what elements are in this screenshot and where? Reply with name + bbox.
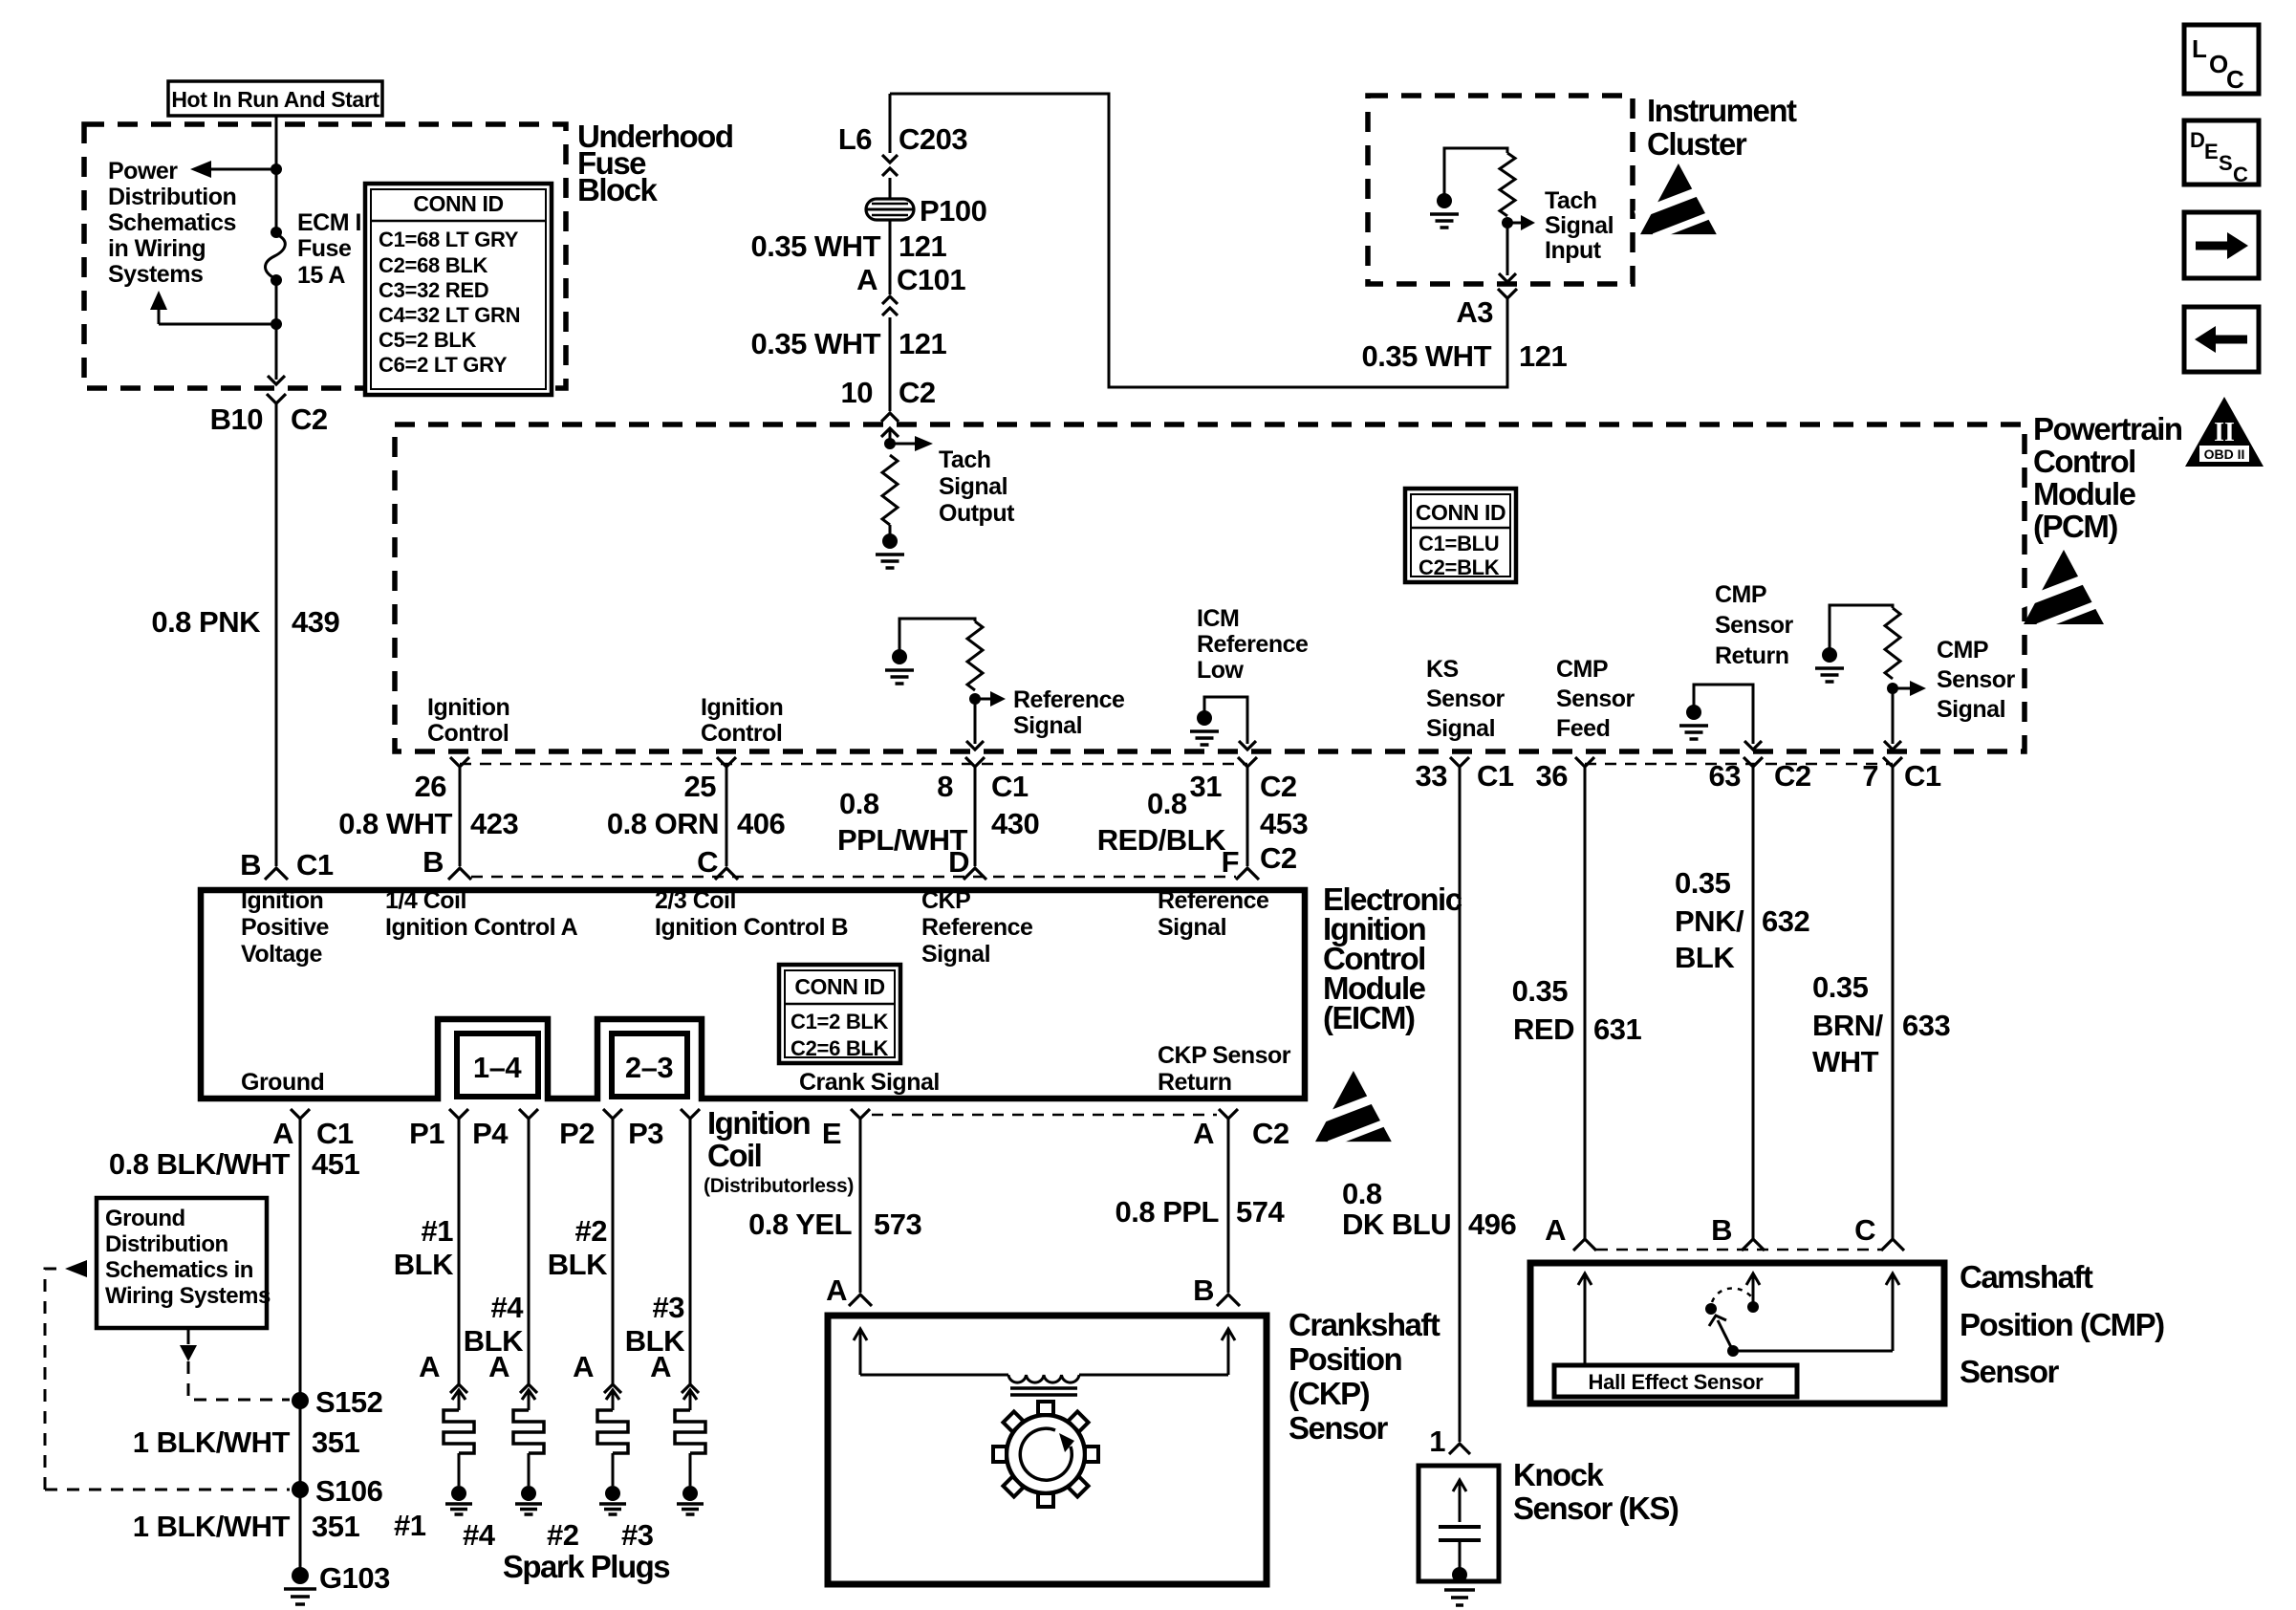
svg-text:0.8: 0.8	[1342, 1177, 1382, 1210]
node: tach output junction	[884, 438, 896, 449]
svg-text:Spark Plugs: Spark Plugs	[503, 1549, 669, 1584]
svg-text:C1: C1	[296, 848, 334, 881]
svg-text:Ignition Control A: Ignition Control A	[385, 914, 578, 941]
knock sensor element	[1459, 1482, 1462, 1522]
wire: spark plug #2 BLK from P2	[612, 1128, 615, 1386]
svg-text:7: 7	[1862, 759, 1878, 793]
svg-text:Tach: Tach	[1545, 187, 1597, 214]
svg-text:Schematics in: Schematics in	[105, 1257, 253, 1283]
switch contact dots	[1705, 1303, 1717, 1315]
svg-text:Signal: Signal	[939, 473, 1007, 500]
svg-text:Ignition: Ignition	[707, 1105, 810, 1141]
svg-text:CONN ID: CONN ID	[794, 974, 884, 999]
svg-text:25: 25	[684, 770, 717, 803]
svg-text:CKP Sensor: CKP Sensor	[1158, 1042, 1291, 1069]
ground G103	[292, 1567, 309, 1584]
svg-text:KS: KS	[1426, 656, 1459, 683]
connector fork at PCM bottom (x=760)	[717, 757, 736, 767]
ground inside instrument cluster	[1437, 193, 1452, 208]
spark plug connector A (x=553)	[520, 1384, 537, 1393]
underhood fuse block dashed box	[84, 124, 566, 388]
svg-text:RED/BLK: RED/BLK	[1097, 823, 1226, 857]
switch pivot and arm	[1727, 1345, 1739, 1357]
spark plug resistor element (x=722)	[675, 1410, 705, 1453]
svg-text:Power: Power	[108, 158, 178, 185]
svg-text:Distribution: Distribution	[108, 184, 236, 210]
svg-text:Systems: Systems	[108, 261, 203, 288]
svg-text:Sensor: Sensor	[1715, 612, 1794, 639]
connector fork at PCM bottom (x=1658)	[1575, 757, 1594, 767]
connector fork at EICM bottom (x=900)	[851, 1109, 870, 1119]
svg-text:Signal: Signal	[1158, 914, 1226, 941]
svg-text:Sensor: Sensor	[1426, 685, 1505, 712]
svg-text:0.8 WHT: 0.8 WHT	[338, 807, 452, 840]
label box: Hot In Run And Start	[168, 81, 382, 116]
svg-text:Feed: Feed	[1556, 715, 1610, 742]
svg-text:B: B	[240, 848, 261, 881]
svg-text:0.35 WHT: 0.35 WHT	[750, 327, 880, 360]
arrow: CKP coil lead A	[859, 1331, 862, 1375]
svg-text:CKP: CKP	[921, 887, 970, 914]
svg-text:L: L	[2192, 34, 2207, 63]
svg-text:Hot In Run And Start: Hot In Run And Start	[171, 87, 379, 112]
svg-text:(Distributorless): (Distributorless)	[704, 1175, 854, 1197]
ground: CMP sensor return	[1686, 705, 1701, 720]
fuse ECM I 15 A	[271, 227, 282, 238]
CMP sensor signal pull-up	[1830, 605, 1893, 648]
svg-text:#4: #4	[463, 1518, 496, 1552]
svg-text:A: A	[650, 1350, 671, 1383]
svg-text:C: C	[1854, 1213, 1875, 1247]
svg-text:D: D	[948, 845, 969, 879]
svg-text:A: A	[826, 1273, 847, 1307]
svg-text:0.35: 0.35	[1675, 866, 1731, 900]
svg-text:CONN ID: CONN ID	[1416, 500, 1505, 525]
wire 121: 0.35 WHT between C101 and PCM pin 10	[889, 317, 892, 411]
wire 453: 0.8 RED/BLK reference signal	[1246, 776, 1249, 866]
connector fork at PCM bottom (x=1305)	[1238, 757, 1257, 767]
svg-text:(PCM): (PCM)	[2033, 509, 2117, 544]
arrow into PCM bottom at pin 63	[1744, 741, 1762, 750]
svg-text:C2: C2	[291, 402, 328, 436]
resistor: CMP sensor signal	[1885, 608, 1900, 679]
wire: spark plug #1 BLK from P1	[458, 1128, 461, 1386]
spark plug connector A (x=480)	[450, 1384, 467, 1393]
svg-text:Distribution: Distribution	[105, 1231, 228, 1257]
svg-text:Ignition: Ignition	[701, 694, 783, 721]
wire 574: 0.8 PPL CKP return to CKP B	[1227, 1128, 1230, 1293]
return arrow to Power Distribution Schematics	[159, 323, 276, 326]
svg-text:0.8 ORN: 0.8 ORN	[607, 807, 719, 840]
svg-text:C: C	[697, 845, 718, 879]
node: CMP sensor signal junction	[1887, 683, 1898, 694]
connector fork at EICM bottom (x=722)	[681, 1109, 700, 1119]
svg-text:C5=2 BLK: C5=2 BLK	[379, 328, 477, 352]
legend icon: right arrow	[2184, 212, 2259, 278]
svg-text:BRN/: BRN/	[1812, 1009, 1884, 1042]
wire 496: 0.8 DK BLU KS signal	[1459, 776, 1462, 1442]
svg-text:PNK/: PNK/	[1675, 904, 1744, 938]
svg-text:Control: Control	[427, 720, 509, 747]
svg-text:406: 406	[737, 807, 785, 840]
connector at CKP pin A	[849, 1295, 872, 1306]
svg-text:A: A	[573, 1350, 594, 1383]
svg-text:A: A	[272, 1117, 293, 1150]
svg-text:Input: Input	[1545, 237, 1602, 264]
wire 451: 0.8 BLK/WHT ground from EICM pin A	[299, 1128, 302, 1576]
knock sensor KS box	[1419, 1466, 1499, 1581]
connector forks at EICM top pins	[448, 868, 471, 880]
svg-text:B: B	[1711, 1213, 1732, 1247]
harness dashed line EICM bottom right	[872, 1114, 1217, 1117]
svg-text:BLK: BLK	[1675, 941, 1735, 974]
svg-text:632: 632	[1762, 904, 1809, 938]
connector arrow at underhood fuse block exit	[268, 376, 285, 384]
svg-text:S106: S106	[315, 1474, 383, 1508]
svg-text:Ignition Control B: Ignition Control B	[655, 914, 848, 941]
svg-text:Return: Return	[1715, 642, 1789, 669]
svg-text:Sensor: Sensor	[1937, 666, 2016, 693]
CMP harness dashed line	[1596, 1249, 1881, 1251]
svg-text:Ignition: Ignition	[427, 694, 509, 721]
connector fork at PCM pin 10 C2	[881, 413, 899, 422]
connector fork at EICM bottom (x=314)	[291, 1109, 310, 1119]
svg-text:C3=32 RED: C3=32 RED	[379, 278, 488, 302]
svg-text:Tach: Tach	[939, 446, 991, 473]
svg-text:#3: #3	[653, 1291, 685, 1324]
resistor: reference signal	[967, 621, 983, 690]
spark plug connector A (x=641)	[604, 1384, 621, 1393]
svg-text:E: E	[2204, 140, 2218, 163]
svg-text:C2: C2	[899, 376, 936, 409]
EICM harness dashed line at top	[471, 876, 1236, 879]
svg-text:0.8: 0.8	[839, 787, 879, 820]
spark plug resistor element (x=641)	[597, 1410, 628, 1453]
svg-text:Crankshaft: Crankshaft	[1289, 1307, 1440, 1342]
node: junction to return arrow	[271, 318, 282, 330]
connector fork at EICM bottom (x=553)	[519, 1109, 538, 1119]
svg-text:439: 439	[292, 605, 339, 639]
svg-text:Low: Low	[1197, 657, 1245, 684]
svg-text:1: 1	[1429, 1425, 1445, 1458]
svg-text:C2: C2	[1260, 841, 1297, 875]
ESD sensitivity symbol: instrument cluster	[1635, 163, 1726, 237]
svg-text:10: 10	[841, 376, 873, 409]
svg-text:63: 63	[1709, 759, 1742, 793]
arrow at instrument cluster edge	[1499, 273, 1516, 282]
OBD II symbol	[2185, 397, 2264, 467]
svg-text:C: C	[2233, 163, 2248, 186]
connector fork at PCM bottom (x=1980)	[1883, 757, 1902, 767]
spark plug ground (x=553)	[521, 1486, 536, 1501]
svg-text:Ground: Ground	[241, 1069, 324, 1096]
ground: reference pull-up	[892, 649, 907, 664]
arrow: Tach Signal Input	[1507, 222, 1521, 225]
svg-text:Output: Output	[939, 500, 1015, 527]
svg-text:O: O	[2209, 50, 2228, 78]
svg-text:L6: L6	[838, 122, 872, 156]
svg-text:Reference: Reference	[1013, 686, 1125, 713]
svg-text:BLK: BLK	[548, 1248, 608, 1281]
svg-text:0.35 WHT: 0.35 WHT	[750, 229, 880, 263]
wire 121: tach signal vertical at PCM pin 10	[889, 94, 892, 153]
dashed reference: ground distribution box to S152	[187, 1328, 190, 1344]
svg-text:31: 31	[1190, 770, 1223, 803]
arrow: CKP coil lead B	[1227, 1331, 1230, 1375]
wire 631: 0.35 RED CMP feed	[1584, 776, 1587, 1239]
arrow into PCM top at pin 10	[881, 428, 899, 437]
svg-text:Crank Signal: Crank Signal	[799, 1069, 940, 1096]
svg-text:DK BLU: DK BLU	[1342, 1207, 1451, 1241]
connector at CKP pin B	[1217, 1295, 1240, 1306]
ICM reference low ground loop	[1204, 697, 1247, 744]
svg-text:2–3: 2–3	[625, 1051, 673, 1084]
camshaft position CMP sensor box	[1530, 1263, 1944, 1403]
legend icon DESC	[2184, 120, 2259, 185]
svg-text:Fuse: Fuse	[297, 235, 352, 262]
connector fork at PCM bottom (x=1527)	[1450, 757, 1469, 767]
spark plug ground (x=641)	[605, 1486, 620, 1501]
svg-text:C1=BLU: C1=BLU	[1419, 532, 1499, 555]
splice S152	[292, 1392, 309, 1409]
svg-text:Block: Block	[577, 172, 659, 207]
svg-text:E: E	[822, 1117, 841, 1150]
svg-text:B10: B10	[210, 402, 263, 436]
svg-text:C1=2 BLK: C1=2 BLK	[791, 1010, 889, 1033]
svg-text:P2: P2	[559, 1117, 595, 1150]
ESD sensitivity symbol: PCM	[2019, 550, 2114, 627]
svg-text:Voltage: Voltage	[241, 941, 323, 968]
svg-text:Sensor: Sensor	[1556, 685, 1635, 712]
svg-text:G103: G103	[319, 1561, 390, 1595]
svg-text:15 A: 15 A	[297, 262, 345, 289]
svg-text:OBD II: OBD II	[2204, 446, 2245, 462]
svg-text:Reference: Reference	[921, 914, 1033, 941]
arrow: CMP Sensor Signal	[1893, 687, 1910, 690]
dashed reference at S106	[45, 1489, 290, 1491]
switch travel dashed arc	[1712, 1288, 1751, 1302]
wire: CMP signal to pin 7	[1892, 688, 1895, 744]
wire 423: 0.8 WHT ignition control A	[459, 776, 462, 866]
wire 632: 0.35 PNK/BLK CMP return	[1752, 776, 1755, 1239]
svg-text:#1: #1	[394, 1509, 426, 1542]
wire: reference signal to pin 8	[974, 699, 977, 744]
connector fork at PCM bottom (x=1020)	[965, 757, 985, 767]
svg-text:Signal: Signal	[1013, 712, 1082, 739]
CKP reluctor gear	[993, 1402, 1098, 1507]
svg-text:Position: Position	[1289, 1341, 1402, 1377]
svg-text:Ground: Ground	[105, 1206, 185, 1231]
svg-text:(EICM): (EICM)	[1323, 1000, 1415, 1035]
ground: tach output	[882, 533, 898, 549]
connector fork at PCM bottom (x=1834)	[1744, 757, 1763, 767]
svg-text:in Wiring: in Wiring	[108, 235, 206, 262]
svg-text:ICM: ICM	[1197, 605, 1239, 632]
reference signal pull-up network	[899, 619, 975, 650]
svg-text:574: 574	[1236, 1195, 1285, 1229]
resistor: tach signal output	[882, 455, 898, 525]
connector forks at CMP pins A B C	[1573, 1239, 1596, 1251]
svg-text:121: 121	[1519, 339, 1567, 373]
svg-text:0.8 YEL: 0.8 YEL	[748, 1207, 852, 1241]
svg-text:#4: #4	[491, 1291, 525, 1324]
svg-text:C1: C1	[1904, 759, 1941, 793]
ESD sensitivity symbol: EICM	[1310, 1071, 1401, 1144]
spark plug resistor element (x=553)	[513, 1410, 544, 1453]
wire: battery feed from Hot In Run And Start	[275, 116, 278, 231]
CONN ID table: underhood fuse block	[365, 184, 552, 395]
svg-text:573: 573	[874, 1207, 921, 1241]
connector fork at EICM bottom (x=480)	[449, 1109, 468, 1119]
powertrain control module PCM dashed box	[395, 424, 2025, 751]
wire 573: 0.8 YEL crank signal E to CKP A	[859, 1128, 862, 1293]
CMP sensor return ground loop	[1694, 685, 1753, 744]
svg-text:430: 430	[991, 807, 1039, 840]
svg-text:A: A	[1545, 1213, 1566, 1247]
svg-text:Position (CMP): Position (CMP)	[1960, 1307, 2164, 1342]
svg-text:C2: C2	[1774, 759, 1811, 793]
svg-text:A: A	[856, 263, 877, 296]
svg-text:ECM I: ECM I	[297, 209, 361, 236]
svg-text:0.8 PPL: 0.8 PPL	[1116, 1195, 1220, 1229]
svg-text:C1: C1	[991, 770, 1029, 803]
CONN ID table: EICM	[779, 965, 900, 1063]
wire 439: 0.8 PNK from B10 to EICM	[275, 413, 278, 866]
svg-text:451: 451	[312, 1147, 359, 1181]
connector C101 pin A	[882, 296, 898, 304]
svg-text:0.35 WHT: 0.35 WHT	[1361, 339, 1491, 373]
svg-text:#1: #1	[422, 1214, 454, 1248]
svg-text:0.8 PNK: 0.8 PNK	[151, 605, 261, 639]
svg-text:Return: Return	[1158, 1069, 1232, 1096]
svg-text:A: A	[488, 1350, 509, 1383]
connector C203	[882, 155, 898, 163]
CKP pickup coil	[860, 1374, 1008, 1377]
spark plug resistor element (x=480)	[444, 1410, 474, 1453]
svg-text:#2: #2	[547, 1518, 578, 1552]
wire: spark plug #3 BLK from P3	[689, 1128, 692, 1386]
arrow into PCM bottom at pin 31	[1239, 741, 1256, 750]
svg-text:Wiring Systems: Wiring Systems	[105, 1283, 271, 1309]
wire 430: 0.8 PPL/WHT CKP reference	[974, 776, 977, 866]
svg-text:A: A	[419, 1350, 440, 1383]
wire to tach input resistor	[1444, 148, 1507, 194]
coil pack 2-3 box	[612, 1033, 687, 1097]
svg-text:P1: P1	[409, 1117, 444, 1150]
connector fork at EICM bottom (x=641)	[603, 1109, 622, 1119]
arrow: CMP pin B switched	[1752, 1273, 1755, 1307]
wire: pivot to CMP pin C	[1733, 1350, 1893, 1353]
svg-text:Camshaft: Camshaft	[1960, 1259, 2093, 1295]
legend icon: left arrow	[2184, 307, 2259, 372]
node: reference signal junction	[969, 693, 981, 705]
svg-text:Reference: Reference	[1197, 631, 1309, 658]
svg-text:CONN ID: CONN ID	[413, 191, 503, 216]
svg-text:A3: A3	[1456, 295, 1493, 329]
svg-text:2/3 Coil: 2/3 Coil	[655, 887, 736, 914]
svg-text:1 BLK/WHT: 1 BLK/WHT	[133, 1510, 291, 1543]
svg-text:RED: RED	[1513, 1012, 1574, 1046]
harness dashed line below PCM pins (right group)	[1585, 763, 1893, 766]
connector fork at EICM bottom (x=1285)	[1219, 1109, 1238, 1119]
arrow: CMP pin A from hall sensor	[1584, 1273, 1587, 1365]
svg-text:Positive: Positive	[241, 914, 329, 941]
svg-text:C101: C101	[897, 263, 965, 296]
svg-text:S: S	[2219, 151, 2232, 175]
connector fork at PCM bottom (x=481)	[450, 757, 469, 767]
svg-text:Ignition: Ignition	[241, 887, 323, 914]
svg-text:#2: #2	[575, 1214, 607, 1248]
arrow: Reference Signal	[975, 698, 990, 701]
svg-text:D: D	[2190, 128, 2205, 152]
svg-text:0.8 BLK/WHT: 0.8 BLK/WHT	[109, 1147, 291, 1181]
svg-text:CMP: CMP	[1715, 581, 1766, 608]
instrument cluster dashed box	[1368, 96, 1633, 284]
svg-text:CMP: CMP	[1556, 656, 1608, 683]
svg-text:#3: #3	[621, 1518, 654, 1552]
svg-text:C2=6 BLK: C2=6 BLK	[791, 1036, 889, 1060]
svg-text:Sensor (KS): Sensor (KS)	[1513, 1490, 1679, 1526]
svg-text:1–4: 1–4	[473, 1051, 522, 1084]
svg-text:Sensor: Sensor	[1960, 1354, 2060, 1389]
svg-text:C6=2 LT GRY: C6=2 LT GRY	[379, 353, 508, 377]
svg-text:(CKP): (CKP)	[1289, 1376, 1370, 1411]
svg-text:351: 351	[312, 1425, 359, 1459]
wire 406: 0.8 ORN ignition control B	[726, 776, 728, 866]
svg-text:C203: C203	[899, 122, 967, 156]
arrow: Tach Signal Output	[890, 443, 915, 446]
svg-text:Signal: Signal	[921, 941, 990, 968]
svg-text:BLK: BLK	[394, 1248, 454, 1281]
legend icon LOC	[2184, 25, 2259, 94]
wire 121: 0.35 WHT between P100 and C101	[889, 220, 892, 294]
note box: Ground Distribution Schematics in Wiring Systems	[97, 1198, 267, 1328]
svg-text:0.35: 0.35	[1512, 974, 1569, 1008]
spark plug ground (x=722)	[682, 1486, 698, 1501]
svg-text:453: 453	[1260, 807, 1308, 840]
svg-text:C2=68 BLK: C2=68 BLK	[379, 253, 487, 277]
svg-text:1 BLK/WHT: 1 BLK/WHT	[133, 1425, 291, 1459]
svg-text:Instrument: Instrument	[1647, 93, 1797, 128]
svg-text:A: A	[1193, 1117, 1214, 1150]
svg-text:Control: Control	[701, 720, 782, 747]
connector B10 C2 fork	[267, 394, 286, 403]
svg-text:Signal: Signal	[1426, 715, 1495, 742]
wire 633: 0.35 BRN/WHT CMP signal	[1892, 776, 1895, 1239]
svg-text:C2=BLK: C2=BLK	[1419, 555, 1500, 579]
svg-text:0.8: 0.8	[1147, 787, 1187, 820]
crankshaft position CKP sensor box	[828, 1316, 1267, 1584]
svg-text:C4=32 LT GRN: C4=32 LT GRN	[379, 303, 520, 327]
svg-text:C1: C1	[316, 1117, 354, 1150]
wire: fuse output	[275, 280, 278, 380]
svg-text:P4: P4	[472, 1117, 509, 1150]
svg-text:C2: C2	[1252, 1117, 1289, 1150]
spark plug ground (x=480)	[451, 1486, 466, 1501]
svg-text:Cluster: Cluster	[1647, 126, 1747, 162]
svg-text:P3: P3	[628, 1117, 663, 1150]
svg-text:Module: Module	[2033, 476, 2136, 511]
svg-text:Reference: Reference	[1158, 887, 1269, 914]
ground: knock sensor case	[1452, 1567, 1467, 1582]
node: tach signal input junction	[1502, 217, 1513, 228]
svg-text:423: 423	[470, 807, 518, 840]
svg-text:WHT: WHT	[1812, 1045, 1879, 1078]
harness dashed line below PCM pins (left group)	[460, 763, 1247, 766]
svg-text:C2: C2	[1260, 770, 1297, 803]
coil pack 1-4 box	[457, 1033, 538, 1097]
connector fork at EICM pin B C1	[265, 868, 288, 880]
